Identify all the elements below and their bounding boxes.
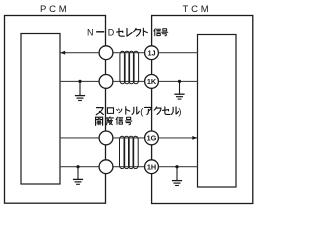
wire: row2 twisted pair span xyxy=(106,80,152,82)
ground row2 TCM side xyxy=(174,94,184,99)
ground stem row2 TCM side xyxy=(179,81,181,93)
connector circle PCM row2 xyxy=(99,75,113,89)
wire: row4 1H to TCM unit xyxy=(152,166,198,168)
connector circle TCM 1H xyxy=(145,160,159,174)
label: throttle (accel) opening signal line2 xyxy=(96,117,132,125)
svg-text:1K: 1K xyxy=(147,77,157,86)
PCM module outer box xyxy=(5,16,106,204)
connector circle PCM row3 xyxy=(99,131,113,145)
junction dot row2 PCM side xyxy=(78,80,81,83)
junction dot row2 TCM side xyxy=(178,80,181,83)
svg-text:1G: 1G xyxy=(147,134,157,143)
label: N-D select signal xyxy=(87,28,168,38)
wire: row2 PCM unit to connector xyxy=(60,80,106,82)
junction dot row4 PCM side xyxy=(76,165,79,168)
wire: row2 1K to TCM unit xyxy=(152,80,198,82)
wire: row3 PCM unit to connector xyxy=(60,137,106,139)
svg-text:(: ( xyxy=(140,106,143,116)
TCM internal unit box xyxy=(198,35,237,188)
ground row2 PCM side xyxy=(75,96,85,101)
ground stem row4 PCM side xyxy=(77,167,79,179)
PCM internal unit box xyxy=(21,34,60,185)
arrow into PCM unit (row1) xyxy=(60,51,65,55)
wire: row4 twisted pair span xyxy=(106,166,152,168)
ground stem row2 PCM side xyxy=(79,81,81,95)
label: throttle (accel) opening signal line1 xyxy=(96,106,181,116)
wire: row1 1J to TCM unit xyxy=(152,52,198,54)
ground stem row4 TCM side xyxy=(176,167,178,181)
arrow into TCM unit (row3) xyxy=(192,136,197,140)
svg-text:1J: 1J xyxy=(147,48,155,57)
ground row4 TCM side xyxy=(172,181,182,186)
svg-text:D: D xyxy=(108,28,115,38)
ground row4 PCM side xyxy=(73,179,83,184)
wire: row3 1G to TCM unit xyxy=(152,137,198,139)
wire: row4 PCM unit to connector xyxy=(60,166,106,168)
connector circle PCM row4 xyxy=(99,160,113,174)
connector circle TCM 1J xyxy=(145,46,159,60)
wire: row3 twisted pair span xyxy=(106,137,152,139)
svg-text:1H: 1H xyxy=(147,162,156,171)
wire: row1 PCM unit to connector xyxy=(60,52,106,54)
svg-text:N: N xyxy=(87,28,94,38)
svg-text:PCM: PCM xyxy=(40,4,70,15)
svg-text:): ) xyxy=(178,106,181,116)
connector circle TCM 1G xyxy=(145,131,159,145)
twisted-pair loops (N-D select signal) xyxy=(120,51,139,83)
svg-text:TCM: TCM xyxy=(183,4,212,15)
TCM module outer box xyxy=(152,16,253,204)
junction dot row4 TCM side xyxy=(175,165,178,168)
wire: row1 twisted pair span xyxy=(106,52,152,54)
twisted-pair loops (throttle signal) xyxy=(120,136,139,168)
connector circle PCM row1 xyxy=(99,46,113,60)
connector circle TCM 1K xyxy=(145,75,159,89)
